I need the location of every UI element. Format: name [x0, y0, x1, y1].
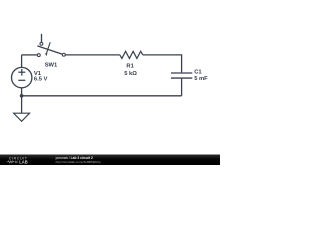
V1 plus sign — [18, 69, 25, 76]
SW1 right terminal — [62, 53, 65, 56]
wire V1 top to switch left terminal — [22, 54, 38, 56]
svg-text:R1: R1 — [126, 63, 134, 69]
SW1 left terminal — [37, 54, 40, 57]
svg-text:5 kΩ: 5 kΩ — [124, 71, 137, 77]
ground — [14, 113, 30, 121]
junction dot — [20, 94, 24, 98]
svg-text:6.5 V: 6.5 V — [34, 77, 48, 83]
SW1 blade — [37, 46, 62, 54]
svg-text:5 mF: 5 mF — [194, 76, 208, 82]
SW1 top stub wire — [41, 34, 43, 42]
SW1 actuator arrow — [46, 42, 50, 53]
svg-text:C1: C1 — [194, 70, 202, 76]
capacitor C1 — [171, 73, 192, 78]
wire bottom rail — [22, 95, 182, 97]
switch SW1 — [37, 34, 65, 57]
wire resistor to top-right corner and down to capacitor — [143, 55, 182, 73]
svg-text:SW1: SW1 — [45, 63, 58, 69]
SW1 top terminal — [40, 42, 43, 45]
svg-text:http://circuitlab.com/c6v8883j: http://circuitlab.com/c6v8883j82zp — [56, 160, 102, 164]
wire capacitor bottom stub — [181, 79, 183, 96]
wire V1 top vertical — [21, 55, 23, 67]
voltage source V1 — [12, 67, 32, 87]
wire V1 bottom to ground — [21, 88, 23, 113]
resistor R1 — [120, 51, 143, 58]
CircuitLab logo — [7, 156, 28, 164]
svg-text:LAB: LAB — [19, 159, 27, 164]
wire switch right terminal to resistor — [65, 54, 120, 56]
V1 minus sign — [18, 79, 25, 81]
